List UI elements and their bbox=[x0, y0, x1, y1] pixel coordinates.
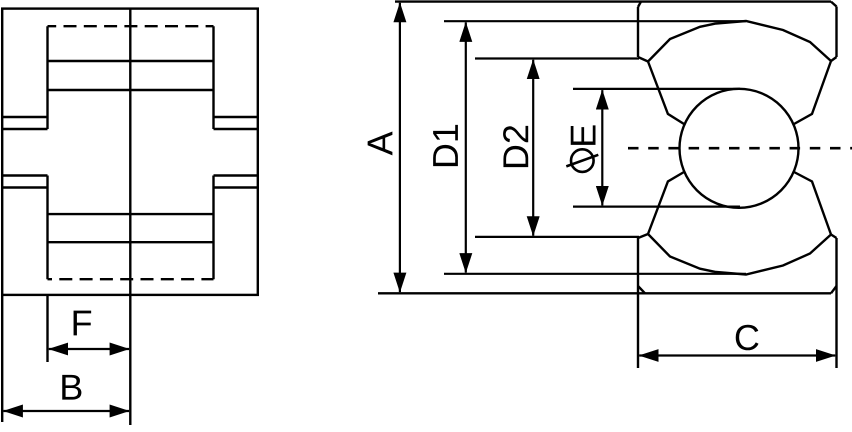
left view inner vertical right lower bbox=[212, 176, 214, 280]
extension line D2 top bbox=[475, 57, 639, 59]
right view right edge lower + extension line C right bbox=[835, 238, 837, 368]
label B bbox=[62, 375, 81, 400]
right view bottom edge / extension line A bottom bbox=[378, 292, 831, 294]
extension line left outer edge below bbox=[1, 295, 3, 422]
extension line D1 top bbox=[444, 20, 746, 22]
label E bbox=[571, 125, 596, 145]
diameter symbol circle of label E bbox=[571, 149, 594, 172]
label A bbox=[368, 131, 393, 155]
label D1 bbox=[433, 125, 458, 166]
right view top-right chamfer bbox=[831, 2, 837, 7]
left view inner vertical left lower bbox=[46, 176, 48, 280]
right view bottom wing outline bbox=[648, 234, 831, 275]
extension line D1 bottom bbox=[444, 273, 746, 275]
dimension C arrow bbox=[639, 354, 835, 356]
dimension E arrow bbox=[601, 90, 603, 205]
extension line F at x=47.5 bbox=[46, 295, 48, 362]
right view left edge lower + extension line C left bbox=[637, 238, 639, 368]
center post circle bbox=[680, 89, 799, 208]
left view plate line top lower bbox=[48, 89, 214, 91]
label D2 bbox=[503, 126, 528, 167]
extension line E top bbox=[573, 88, 740, 90]
extension line E bottom bbox=[573, 206, 740, 208]
right view left edge upper bbox=[637, 7, 639, 57]
left view notch bottom-left lines bbox=[2, 174, 47, 176]
right view right edge upper bbox=[835, 7, 837, 58]
right view window edge upper-left bbox=[648, 62, 684, 125]
label C bbox=[736, 325, 759, 350]
right view corner chamfer to wing upper-left bbox=[638, 57, 648, 62]
right view top wing outline bbox=[648, 21, 831, 62]
left view hidden dashed line top bbox=[48, 25, 214, 27]
right view bottom-right chamfer bbox=[831, 286, 837, 293]
right view corner chamfer to wing upper-right bbox=[831, 57, 837, 61]
left view hidden dashed line bottom bbox=[48, 278, 214, 280]
left view outer rectangle bbox=[2, 9, 258, 295]
left view plate line bottom lower bbox=[48, 241, 214, 243]
right view bottom-left chamfer bbox=[638, 286, 645, 293]
dimension F arrow bbox=[49, 348, 129, 350]
dimension D2 arrow bbox=[532, 60, 534, 236]
right view corner chamfer lower-right bbox=[831, 235, 837, 239]
extension line D2 bottom bbox=[475, 236, 639, 238]
diameter symbol slash of label E bbox=[566, 155, 598, 167]
right view corner chamfer lower-left bbox=[638, 234, 648, 238]
right view top edge / extension line A top bbox=[395, 0, 831, 2]
right view top-left chamfer bbox=[638, 2, 641, 7]
left view inner vertical left upper bbox=[46, 26, 48, 129]
left view center line bbox=[129, 9, 131, 425]
left view plate line bottom upper bbox=[48, 213, 214, 215]
dimension A arrow bbox=[399, 3, 401, 292]
left view notch top-right lines bbox=[214, 116, 258, 118]
left view plate line top upper bbox=[48, 60, 214, 62]
right view window edge upper-right bbox=[794, 61, 831, 124]
left view notch top-left lines bbox=[2, 116, 47, 118]
right view window edge lower-left bbox=[648, 172, 684, 234]
label F bbox=[74, 311, 92, 336]
left view inner vertical right upper bbox=[212, 26, 214, 129]
dimension D1 arrow bbox=[465, 22, 467, 272]
center dashed axis line bbox=[628, 147, 852, 150]
right view window edge lower-right bbox=[794, 172, 831, 235]
dimension B arrow bbox=[3, 410, 129, 412]
left view notch bottom-right lines bbox=[214, 174, 258, 176]
